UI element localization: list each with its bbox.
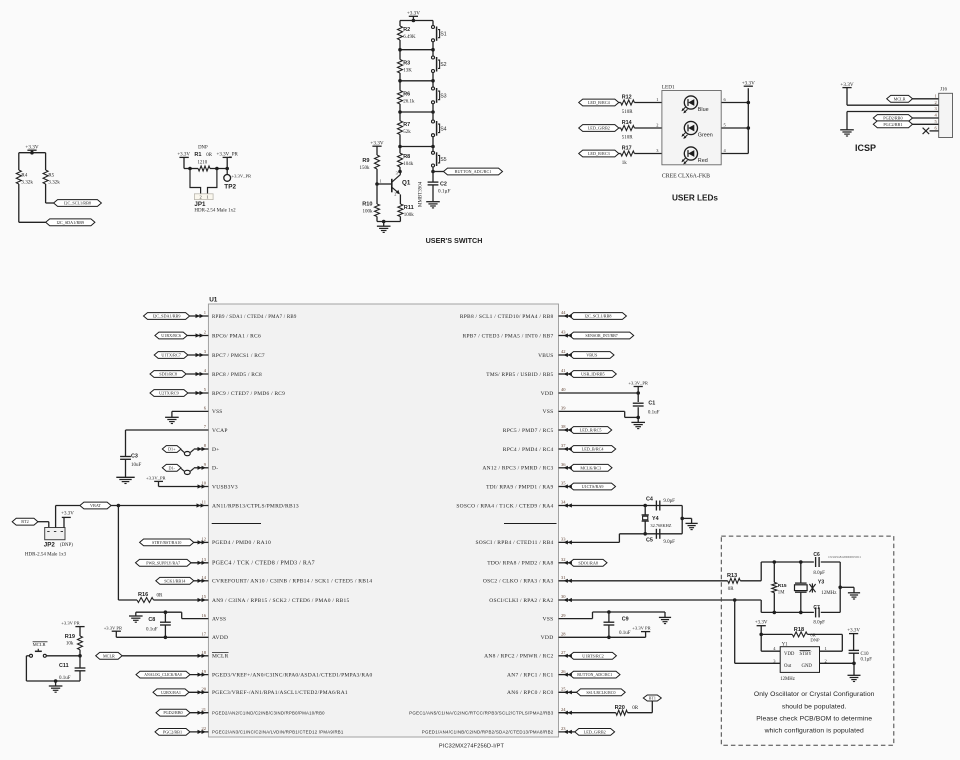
svg-text:43: 43 (561, 330, 566, 335)
svg-text:1: 1 (206, 195, 208, 200)
svg-text:VDD: VDD (784, 652, 795, 657)
svg-text:U1RTS/RC2: U1RTS/RC2 (582, 653, 603, 658)
svg-text:12MHz: 12MHz (821, 591, 837, 596)
svg-text:I2C_SDA1/RB9: I2C_SDA1/RB9 (56, 220, 84, 225)
svg-text:PGED1/AN4/C1INB/C2IND/RPB2/SDA: PGED1/AN4/C1INB/C2IND/RPB2/SDA2/CTED13/P… (422, 730, 554, 735)
svg-text:D+: D+ (212, 447, 220, 453)
svg-text:6.49K: 6.49K (403, 35, 416, 40)
svg-text:BT2: BT2 (21, 519, 28, 524)
svg-text:+3.3V: +3.3V (847, 628, 860, 633)
svg-text:Y3: Y3 (818, 580, 825, 586)
svg-text:32.768KHZ: 32.768KHZ (650, 523, 671, 528)
svg-text:SOSCI / RPB4 / CTED11 / RB4: SOSCI / RPB4 / CTED11 / RB4 (475, 540, 553, 546)
svg-text:28: 28 (561, 632, 566, 637)
svg-text:AN6 / RPC0 / RC0: AN6 / RPC0 / RC0 (507, 690, 553, 696)
svg-text:12MHz: 12MHz (780, 677, 795, 682)
svg-text:BUTTON_ADC/RC1: BUTTON_ADC/RC1 (455, 169, 492, 174)
svg-text:VDD: VDD (541, 635, 554, 641)
svg-text:AN12 / RPC3 / PMRD / RC3: AN12 / RPC3 / PMRD / RC3 (482, 466, 553, 472)
svg-text:R7: R7 (403, 122, 410, 128)
svg-text:40: 40 (561, 387, 566, 392)
svg-text:(DNP): (DNP) (60, 543, 73, 548)
svg-text:AVDD: AVDD (212, 635, 228, 641)
svg-text:AN7 / RPC1 / RC1: AN7 / RPC1 / RC1 (507, 672, 553, 678)
svg-text:VBUS: VBUS (586, 353, 598, 358)
svg-text:8.0pF: 8.0pF (813, 571, 825, 576)
svg-text:Red: Red (698, 158, 708, 164)
svg-text:13K: 13K (403, 69, 412, 74)
svg-text:RPC8 / PMD5 / RC8: RPC8 / PMD5 / RC8 (212, 372, 262, 378)
svg-text:S2: S2 (440, 62, 446, 68)
svg-text:0.1µF: 0.1µF (438, 189, 450, 195)
svg-text:RPC9 / CTED7 / PMD6 / RC9: RPC9 / CTED7 / PMD6 / RC9 (212, 391, 285, 397)
svg-text:RPC7 / PMCS1 / RC7: RPC7 / PMCS1 / RC7 (212, 353, 265, 359)
svg-text:2: 2 (394, 191, 396, 196)
svg-text:AVSS: AVSS (212, 616, 226, 622)
svg-text:3.32k: 3.32k (21, 180, 33, 186)
svg-text:Blue: Blue (698, 107, 709, 113)
svg-text:MCLK/RC3: MCLK/RC3 (580, 465, 601, 470)
svg-text:U2RX/RA1: U2RX/RA1 (161, 690, 181, 695)
svg-text:+3.3V: +3.3V (370, 141, 383, 147)
svg-text:C2: C2 (440, 182, 447, 188)
svg-text:LED_B/RC4: LED_B/RC4 (588, 100, 611, 105)
svg-text:USB_ID/RB5: USB_ID/RB5 (581, 372, 605, 377)
svg-text:VSS: VSS (542, 409, 553, 415)
svg-text:R10: R10 (362, 201, 372, 207)
svg-text:26.1k: 26.1k (403, 100, 415, 105)
svg-text:1210: 1210 (198, 160, 208, 165)
svg-text:3: 3 (396, 170, 398, 175)
svg-text:R4: R4 (21, 173, 27, 179)
svg-text:+3.3V: +3.3V (755, 620, 768, 625)
svg-text:26: 26 (561, 669, 566, 674)
svg-text:1: 1 (656, 97, 658, 102)
svg-text:USER LEDs: USER LEDs (672, 194, 718, 203)
svg-text:STBY: STBY (800, 652, 813, 657)
svg-text:Q1: Q1 (402, 180, 411, 187)
svg-text:104k: 104k (403, 162, 414, 167)
svg-text:CX3225GB12000D0WL8C1: CX3225GB12000D0WL8C1 (828, 556, 861, 559)
svg-text:STBY/RST/RA10: STBY/RST/RA10 (152, 540, 181, 545)
svg-text:+3.3V_PR: +3.3V_PR (628, 381, 649, 386)
svg-text:+3.3V: +3.3V (840, 82, 853, 88)
svg-text:R20: R20 (615, 705, 625, 711)
svg-text:+3.3V PR: +3.3V PR (61, 621, 80, 626)
svg-text:9.0pF: 9.0pF (663, 499, 675, 504)
svg-text:Y4: Y4 (652, 516, 659, 522)
svg-text:I2C_SCL1/RB8: I2C_SCL1/RB8 (64, 201, 91, 206)
svg-text:RPB9 / SDA1 / CTED4 / PMA7 / R: RPB9 / SDA1 / CTED4 / PMA7 / RB9 (212, 315, 297, 320)
svg-text:8.0pF: 8.0pF (813, 620, 825, 625)
svg-text:S1: S1 (440, 32, 446, 38)
svg-text:PGD2/RB0: PGD2/RB0 (883, 116, 902, 121)
svg-text:C6: C6 (813, 552, 820, 558)
svg-text:OSC2 / CLKO / RPA3 / RA3: OSC2 / CLKO / RPA3 / RA3 (483, 579, 554, 585)
svg-text:S4: S4 (440, 126, 446, 132)
svg-text:AN8 / RPC2 / PMWR / RC2: AN8 / RPC2 / PMWR / RC2 (484, 654, 553, 660)
svg-text:C3: C3 (131, 454, 138, 460)
svg-text:DNP: DNP (810, 638, 820, 643)
svg-text:+3.3V PR: +3.3V PR (632, 626, 651, 631)
svg-text:MCLR: MCLR (103, 653, 115, 658)
svg-text:R1: R1 (194, 152, 201, 158)
svg-text:U1: U1 (209, 297, 218, 304)
svg-text:2: 2 (935, 100, 937, 105)
svg-text:0.1uF: 0.1uF (619, 631, 631, 636)
svg-text:33: 33 (561, 537, 566, 542)
svg-text:0R: 0R (206, 153, 212, 158)
svg-text:I2C_SDA1/RB9: I2C_SDA1/RB9 (153, 314, 181, 319)
svg-text:SCK1/RB14: SCK1/RB14 (164, 578, 186, 583)
svg-text:ANALOG_CLICK/RA0: ANALOG_CLICK/RA0 (144, 673, 182, 677)
svg-text:23: 23 (561, 726, 566, 731)
svg-text:32: 32 (561, 557, 566, 562)
svg-text:RPB8 / SCL1 / CTED10/ PMA4 / R: RPB8 / SCL1 / CTED10/ PMA4 / RB8 (460, 314, 554, 320)
svg-text:30: 30 (561, 594, 566, 599)
svg-text:41: 41 (561, 368, 566, 373)
svg-text:2: 2 (204, 330, 206, 335)
svg-text:SDI1/RC8: SDI1/RC8 (159, 372, 177, 377)
svg-text:PGC2/RB1: PGC2/RB1 (163, 729, 182, 734)
svg-text:VSS: VSS (212, 409, 223, 415)
svg-text:PGEC1/AN5/C1INA/C2INC/RTCC/RPB: PGEC1/AN5/C1INA/C2INC/RTCC/RPB3/SCL2/CTP… (409, 711, 554, 716)
svg-text:D-: D- (212, 466, 218, 472)
svg-text:TMS/ RPB5 / USBID / RB5: TMS/ RPB5 / USBID / RB5 (486, 372, 553, 378)
svg-text:CREE CLX6A-FKB: CREE CLX6A-FKB (662, 173, 710, 179)
svg-text:100k: 100k (363, 209, 374, 214)
svg-text:PIC32MX274F256D-I/PT: PIC32MX274F256D-I/PT (439, 744, 505, 750)
svg-text:SOSCO / RPA4 / T1CK / CTED9 /: SOSCO / RPA4 / T1CK / CTED9 / RA4 (456, 503, 553, 509)
svg-text:RPC4 / PMD4 / RC4: RPC4 / PMD4 / RC4 (503, 447, 554, 453)
svg-text:Y1: Y1 (782, 642, 788, 647)
svg-text:C1: C1 (648, 400, 655, 406)
svg-text:27: 27 (561, 650, 566, 655)
svg-text:MCLR: MCLR (212, 654, 229, 660)
svg-text:PGEC2/AN3/C1INC/C2INA/LVDIN/RP: PGEC2/AN3/C1INC/C2INA/LVDIN/RPB1/CTED12 … (212, 730, 344, 735)
svg-text:BT1: BT1 (649, 696, 656, 701)
svg-text:RPB7 / CTED3 / PMA5 / INT0 / R: RPB7 / CTED3 / PMA5 / INT0 / RB7 (463, 333, 554, 339)
svg-text:TDO/ RPA8 / PMD2 / RA8: TDO/ RPA8 / PMD2 / RA8 (487, 561, 553, 567)
svg-text:R6: R6 (403, 92, 410, 98)
svg-text:R14: R14 (622, 120, 632, 126)
svg-text:R3: R3 (403, 61, 410, 67)
svg-text:39: 39 (561, 406, 566, 411)
svg-text:U1TX/RC7: U1TX/RC7 (161, 353, 181, 358)
svg-text:52k: 52k (403, 130, 411, 135)
svg-text:150k: 150k (360, 166, 371, 171)
svg-text:J16: J16 (940, 87, 947, 92)
svg-text:C8: C8 (148, 617, 155, 623)
svg-text:TDI/ RPA9 / PMPD1 / RA9: TDI/ RPA9 / PMPD1 / RA9 (486, 484, 553, 490)
svg-text:VDD: VDD (541, 391, 554, 397)
svg-text:C9: C9 (622, 617, 629, 623)
svg-text:+3.3V: +3.3V (61, 512, 74, 517)
svg-text:R16: R16 (138, 592, 148, 598)
svg-text:44: 44 (561, 310, 566, 315)
svg-text:which configuration is populat: which configuration is populated (764, 728, 864, 735)
svg-text:+3.3V PR: +3.3V PR (104, 625, 123, 630)
svg-text:PGC2/RB1: PGC2/RB1 (883, 122, 902, 127)
svg-text:D1-: D1- (168, 465, 175, 470)
svg-text:LED_B/RC4: LED_B/RC4 (582, 447, 605, 452)
svg-text:AN11/RPB13/CTPLS/PMRD/RB13: AN11/RPB13/CTPLS/PMRD/RB13 (212, 503, 299, 509)
svg-text:11: 11 (202, 500, 206, 505)
svg-text:R15: R15 (778, 583, 787, 589)
svg-text:510R: 510R (622, 136, 634, 141)
svg-text:29: 29 (561, 613, 566, 618)
svg-text:510R: 510R (622, 110, 634, 115)
svg-text:PGEC4 / TCK / CTED8 / PMD3 / R: PGEC4 / TCK / CTED8 / PMD3 / RA7 (212, 561, 315, 567)
svg-text:24: 24 (561, 707, 566, 712)
svg-text:0R: 0R (632, 706, 639, 711)
svg-text:+3.3V_PR: +3.3V_PR (232, 173, 253, 178)
svg-text:HDR-2.54 Male 1x2: HDR-2.54 Male 1x2 (194, 209, 236, 214)
svg-text:LED_R/RC3: LED_R/RC3 (588, 151, 610, 156)
svg-text:should be populated.: should be populated. (782, 703, 847, 710)
svg-text:2: 2 (199, 195, 201, 200)
svg-text:LED_G/RB2: LED_G/RB2 (584, 729, 606, 734)
svg-text:PGED2/AN2/C1IND/C2INB/C3IND/RP: PGED2/AN2/C1IND/C2INB/C3IND/RPB0/PMA10/R… (212, 711, 325, 716)
svg-text:C11: C11 (59, 663, 69, 669)
svg-text:+3.3V_PR: +3.3V_PR (146, 476, 167, 481)
svg-text:S5: S5 (440, 157, 446, 163)
svg-text:R9: R9 (362, 158, 369, 164)
svg-text:SS1/LRCLK/RC0: SS1/LRCLK/RC0 (586, 690, 615, 695)
svg-text:D1+: D1+ (168, 447, 176, 452)
svg-text:SENSOR_INT/RB7: SENSOR_INT/RB7 (585, 333, 617, 338)
svg-text:PGED4 / PMD0 / RA10: PGED4 / PMD0 / RA10 (212, 540, 271, 546)
svg-text:Please check PCB/BOM to determ: Please check PCB/BOM to determine (756, 716, 872, 723)
svg-text:R18: R18 (794, 627, 804, 633)
svg-text:AN9 / C3INA / RPB15 / SCK2 / C: AN9 / C3INA / RPB15 / SCK2 / CTED6 / PMA… (212, 598, 350, 604)
svg-text:VBUS: VBUS (538, 353, 553, 359)
svg-text:JP2: JP2 (44, 542, 56, 549)
svg-text:ICSP: ICSP (855, 143, 876, 153)
svg-text:3.32k: 3.32k (48, 180, 60, 186)
svg-text:MCLR: MCLR (894, 96, 906, 101)
svg-text:VUSB3V3: VUSB3V3 (212, 484, 238, 490)
svg-text:DNP: DNP (198, 146, 208, 151)
svg-text:C4: C4 (646, 497, 653, 503)
svg-text:R8: R8 (403, 154, 410, 160)
svg-text:10uF: 10uF (131, 463, 142, 468)
svg-text:9.0pF: 9.0pF (663, 540, 675, 545)
svg-text:0.1uF: 0.1uF (59, 676, 71, 681)
svg-text:0R: 0R (157, 594, 164, 599)
svg-text:S3: S3 (440, 93, 446, 99)
svg-text:RPC5 / PMD7 / RC5: RPC5 / PMD7 / RC5 (503, 428, 554, 434)
svg-text:31: 31 (561, 575, 566, 580)
svg-text:R19: R19 (65, 634, 75, 640)
svg-text:C5: C5 (646, 538, 653, 544)
svg-text:R11: R11 (404, 205, 414, 211)
svg-text:PGED3/VREF+/AN0/C3INC/RPA0/ASD: PGED3/VREF+/AN0/C3INC/RPA0/ASDA1/CTED1/P… (212, 672, 372, 678)
svg-text:0.1µF: 0.1µF (861, 658, 873, 663)
svg-text:36: 36 (561, 462, 566, 467)
svg-text:SDO1/RA8: SDO1/RA8 (578, 560, 598, 565)
svg-text:PGEC3/VREF-/AN1/RPA1/ASCL1/CTE: PGEC3/VREF-/AN1/RPA1/ASCL1/CTED2/PMA6/RA… (212, 690, 348, 696)
svg-text:10k: 10k (66, 641, 74, 646)
svg-text:R2: R2 (403, 27, 410, 33)
svg-text:MCLR: MCLR (33, 642, 47, 647)
svg-text:1M: 1M (778, 591, 785, 596)
svg-text:BUTTON_ADC/RC1: BUTTON_ADC/RC1 (577, 672, 612, 677)
svg-text:U1RX/RC6: U1RX/RC6 (161, 333, 181, 338)
svg-text:LED1: LED1 (662, 85, 675, 91)
svg-text:PWR_SUPPLY/RA7: PWR_SUPPLY/RA7 (146, 560, 180, 565)
svg-text:TP2: TP2 (224, 183, 236, 190)
svg-text:1: 1 (825, 646, 827, 651)
svg-text:PGD2/RB0: PGD2/RB0 (163, 710, 182, 715)
svg-text:CVREFOURT/ AN10 / C3INB / RPB1: CVREFOURT/ AN10 / C3INB / RPB14 / SCK1 /… (212, 579, 372, 585)
svg-text:38: 38 (561, 424, 566, 429)
svg-text:U2TX/RC9: U2TX/RC9 (159, 391, 179, 396)
svg-text:2: 2 (656, 122, 658, 127)
svg-text:U1CTS/RA9: U1CTS/RA9 (582, 484, 604, 489)
svg-text:37: 37 (561, 443, 566, 448)
svg-text:JP1: JP1 (194, 201, 206, 208)
svg-text:1: 1 (204, 310, 206, 315)
svg-text:+3.3V: +3.3V (25, 145, 38, 151)
svg-text:VBAT: VBAT (90, 503, 101, 508)
svg-text:MMBT3904: MMBT3904 (419, 181, 424, 207)
svg-text:C10: C10 (861, 652, 870, 657)
svg-text:R12: R12 (622, 94, 632, 100)
svg-text:USER'S SWITCH: USER'S SWITCH (426, 236, 483, 245)
svg-text:VSS: VSS (542, 616, 553, 622)
svg-text:C7: C7 (813, 605, 820, 611)
svg-text:17: 17 (202, 632, 207, 637)
svg-text:0.1uF: 0.1uF (146, 627, 158, 632)
svg-text:R13: R13 (727, 573, 737, 579)
svg-text:+3.3V: +3.3V (742, 81, 755, 87)
svg-text:LED_R/RC5: LED_R/RC5 (580, 428, 602, 433)
svg-text:+3.3V: +3.3V (407, 11, 420, 17)
svg-text:0.1uF: 0.1uF (648, 411, 660, 416)
svg-text:GND: GND (802, 664, 813, 669)
svg-text:42: 42 (561, 349, 566, 354)
svg-text:R5: R5 (48, 173, 54, 179)
svg-text:1: 1 (935, 94, 937, 99)
svg-text:LED_G/RB2: LED_G/RB2 (588, 126, 610, 131)
svg-text:RPC6/ PMA1 / RC6: RPC6/ PMA1 / RC6 (212, 333, 261, 339)
svg-text:100k: 100k (404, 213, 415, 218)
svg-text:VCAP: VCAP (212, 428, 228, 434)
svg-text:25: 25 (561, 687, 566, 692)
svg-text:Out: Out (784, 664, 792, 669)
svg-text:I2C_SCL1/RB8: I2C_SCL1/RB8 (585, 314, 612, 319)
svg-text:HDR-2.54 Male 1x3: HDR-2.54 Male 1x3 (25, 553, 67, 558)
svg-text:34: 34 (561, 500, 566, 505)
svg-text:1: 1 (380, 178, 382, 183)
svg-text:0R: 0R (728, 587, 735, 592)
svg-text:R17: R17 (622, 145, 632, 151)
svg-text:35: 35 (561, 481, 566, 486)
svg-text:OSCI/CLKI / RPA2 / RA2: OSCI/CLKI / RPA2 / RA2 (489, 598, 553, 604)
svg-text:1k: 1k (622, 161, 628, 166)
svg-text:Green: Green (698, 133, 713, 139)
svg-text:16: 16 (202, 613, 207, 618)
svg-text:Only Oscillator or Crystal Con: Only Oscillator or Crystal Configuration (754, 691, 875, 698)
